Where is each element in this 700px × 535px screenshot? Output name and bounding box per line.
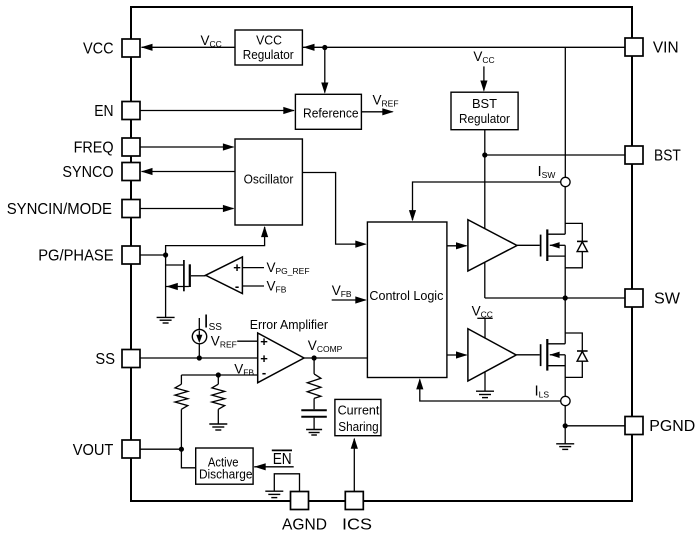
- pin ICS: [342, 492, 372, 534]
- label VPG_REF: [267, 260, 310, 276]
- svg-text:+: +: [260, 351, 268, 366]
- block Reference: [295, 94, 361, 129]
- svg-text:Sharing: Sharing: [338, 419, 378, 434]
- wire EN to Reference: [140, 107, 295, 114]
- block Control Logic: [367, 222, 447, 378]
- op-amp low side driver: [468, 329, 516, 381]
- wire VOUT to divider: [140, 448, 181, 450]
- wire Oscillator to SYNCO: [141, 168, 235, 175]
- wire VOUT to Active Discharge: [181, 449, 195, 468]
- svg-text:Discharge: Discharge: [199, 467, 253, 482]
- diode D1 body high side: [565, 223, 587, 267]
- node VOUT junction: [179, 447, 184, 452]
- wire VPG_REF stub: [242, 267, 264, 269]
- wire branch to Reference top: [321, 48, 328, 94]
- block Current Sharing: [335, 399, 381, 435]
- ground below C1: [306, 430, 322, 436]
- wire SS to error amplifier: [140, 357, 258, 359]
- wire driver to ground: [484, 372, 486, 391]
- label ISS: [204, 312, 223, 333]
- wire Control Logic to high side driver: [447, 242, 468, 249]
- svg-text:EN: EN: [273, 451, 292, 468]
- resistor R1 upper feedback: [175, 375, 188, 449]
- current source ISS: [192, 318, 206, 358]
- label VCC above BST regulator: [473, 49, 494, 65]
- label EN bar: [272, 450, 292, 468]
- svg-text:Oscillator: Oscillator: [244, 171, 294, 186]
- wire EN into Active Discharge: [254, 463, 294, 470]
- svg-text:VCC: VCC: [256, 32, 282, 47]
- wire VFB node line: [181, 374, 257, 376]
- wire VREF stub to error amp: [237, 340, 258, 342]
- wire ISW sense to Control Logic top: [409, 182, 561, 221]
- node PG/PHASE junction: [163, 252, 168, 257]
- supply bar VCC low driver: [477, 317, 492, 319]
- svg-text:Regulator: Regulator: [243, 47, 294, 62]
- IC outline border: [131, 7, 632, 501]
- wire VCC bar to driver: [484, 318, 486, 338]
- label VREF input: [211, 334, 237, 350]
- transistor Q1 gate bar: [183, 260, 185, 291]
- ground below Q1: [157, 317, 175, 323]
- ground below low driver: [476, 391, 494, 397]
- node VCOMP junction: [312, 355, 317, 360]
- pin EN: [94, 102, 140, 121]
- label VCOMP: [308, 338, 343, 354]
- pin SS: [95, 350, 140, 369]
- svg-text:BST: BST: [654, 148, 681, 165]
- op-amp high side driver: [468, 220, 517, 271]
- ground below PGND junction: [556, 444, 574, 450]
- label VREF output: [373, 93, 399, 109]
- wire SW line: [485, 297, 625, 299]
- svg-text:ICS: ICS: [342, 517, 372, 534]
- label ILS: [535, 383, 550, 400]
- wire BST regulator output down to driver: [484, 130, 486, 229]
- svg-text:Control Logic: Control Logic: [369, 288, 443, 303]
- wire VFB stub comparator: [242, 285, 264, 287]
- wire Q1 source with arrow: [166, 283, 189, 290]
- label ISW: [538, 163, 556, 180]
- diode D2 body low side: [565, 333, 587, 377]
- wire PG/PHASE to Oscillator bottom: [166, 226, 269, 255]
- wire SYNCIN/MODE to Oscillator: [140, 205, 234, 212]
- op-amp PG comparator: [206, 257, 243, 294]
- wire VCOMP to Control Logic: [304, 357, 367, 359]
- svg-text:Error Amplifier: Error Amplifier: [250, 317, 329, 332]
- wire PG/PHASE down to discharge FET: [165, 255, 167, 317]
- pin SW: [625, 289, 681, 308]
- wire VCC into BST regulator: [480, 66, 487, 91]
- wire Q1 drain to comparator tip: [191, 275, 206, 277]
- wire Control Logic to low side driver: [447, 351, 468, 358]
- current sense ILS circle: [561, 396, 570, 405]
- svg-text:VCC: VCC: [83, 41, 114, 58]
- pin BST: [625, 146, 681, 165]
- node BST junction: [482, 152, 487, 157]
- wire PG/PHASE pin stub: [140, 254, 166, 256]
- svg-text:-: -: [235, 279, 239, 294]
- transistor Q1 channel bar: [189, 264, 191, 287]
- label VCC net: [201, 33, 222, 49]
- node junction on VIN line: [322, 45, 327, 50]
- block VCC Regulator: [235, 30, 302, 65]
- svg-text:Reference: Reference: [303, 105, 359, 120]
- label VFB control logic: [332, 283, 352, 299]
- pin PGND: [625, 417, 695, 436]
- pin SYNCO: [62, 163, 140, 182]
- wire Reference VREF output: [361, 108, 393, 115]
- wire PGND line to pin: [565, 425, 625, 427]
- wire VIN branch down to ISW: [564, 47, 566, 177]
- svg-text:EN: EN: [94, 103, 113, 120]
- node SW junction: [563, 295, 568, 300]
- wire gate stub of discharge FET: [166, 264, 184, 266]
- wire Oscillator to Control Logic: [302, 173, 366, 248]
- svg-text:FREQ: FREQ: [74, 140, 114, 157]
- block Oscillator: [235, 139, 302, 225]
- current sense ISW circle: [561, 177, 570, 186]
- op-amp error amplifier: [258, 333, 304, 383]
- svg-text:SW: SW: [654, 291, 681, 308]
- svg-text:+: +: [260, 334, 268, 349]
- wire driver bottom to SW: [484, 262, 486, 298]
- block Active Discharge: [196, 448, 253, 484]
- wire FREQ to Oscillator: [140, 143, 234, 150]
- wire ILS to PGND: [564, 406, 566, 444]
- node PGND junction: [563, 423, 568, 428]
- node SS junction: [197, 355, 202, 360]
- svg-text:PGND: PGND: [649, 418, 695, 435]
- node VFB divider junction: [216, 372, 221, 377]
- svg-text:SYNCIN/MODE: SYNCIN/MODE: [7, 201, 112, 218]
- svg-text:-: -: [262, 365, 266, 380]
- pin VOUT: [73, 440, 140, 459]
- label VFB comparator: [267, 278, 287, 294]
- transistor M2 low side: [516, 298, 565, 396]
- wire VCC regulator output to VCC pin: [141, 44, 235, 51]
- resistor R2 lower feedback: [212, 375, 225, 424]
- pin PG/PHASE: [38, 246, 140, 265]
- wire VIN to VCC regulator input: [302, 44, 625, 51]
- svg-text:PG/PHASE: PG/PHASE: [38, 248, 113, 265]
- transistor M1 high side: [517, 229, 565, 298]
- wire VFB into Control Logic: [332, 296, 367, 303]
- label VCC above low side driver: [472, 304, 493, 320]
- wire ICS to Current Sharing: [351, 438, 358, 492]
- capacitor C1 compensation: [301, 410, 327, 429]
- wire BST line to BST pin: [485, 154, 625, 156]
- svg-text:BST: BST: [472, 96, 497, 111]
- ground AGND: [265, 491, 283, 497]
- svg-text:VOUT: VOUT: [73, 442, 114, 459]
- ground below R2: [209, 424, 227, 430]
- wire ISW circle to FET drain: [564, 187, 566, 234]
- wire ILS sense to Control Logic bottom: [416, 378, 560, 401]
- svg-text:VIN: VIN: [653, 40, 679, 57]
- pin VIN: [625, 38, 679, 57]
- label VFB error amp: [234, 362, 254, 378]
- pin AGND: [282, 492, 327, 534]
- pin SYNCIN/MODE: [7, 200, 140, 219]
- pin FREQ: [74, 138, 140, 157]
- svg-text:SYNCO: SYNCO: [62, 164, 113, 181]
- resistor R3 compensation: [307, 358, 321, 409]
- block BST Regulator: [451, 92, 518, 130]
- svg-text:Current: Current: [338, 403, 380, 418]
- svg-text:AGND: AGND: [282, 517, 327, 534]
- pin VCC: [83, 39, 140, 58]
- wire AGND to ground: [274, 474, 299, 492]
- svg-text:Regulator: Regulator: [459, 111, 510, 126]
- svg-text:+: +: [233, 260, 241, 275]
- svg-text:SS: SS: [95, 351, 115, 368]
